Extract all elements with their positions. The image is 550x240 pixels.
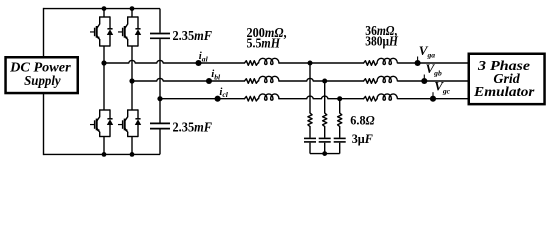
wire shunt branch b upper — [324, 81, 326, 113]
node phase a at leg A midpoint — [101, 60, 106, 65]
wire phase c middle segment — [279, 96, 364, 99]
svg-text:Supply: Supply — [24, 74, 61, 89]
svg-text:3μF: 3μF — [352, 132, 373, 146]
inductor Lag 380uH — [377, 58, 397, 64]
wire shunt branch b lower — [324, 143, 326, 154]
resistor Rbl 200mOhm — [245, 79, 259, 84]
wire inverter leg B vertical — [131, 9, 133, 155]
wire left DC bus — [43, 8, 45, 155]
wire phase a to grid emulator — [398, 62, 469, 64]
svg-text:2.35mF: 2.35mF — [173, 28, 213, 43]
wire shunt branch a to capacitor — [309, 127, 311, 138]
node current measurement i_cl — [215, 96, 221, 102]
three-phase grid emulator box — [469, 54, 545, 104]
diode D4 (anti-parallel) — [135, 110, 141, 137]
resistor Rda 6.8Ohm (damping) — [308, 113, 312, 127]
diode D3 (anti-parallel) — [107, 110, 113, 137]
inductor Lbl 5.5mH — [259, 76, 279, 82]
transistor Q3 (IGBT) — [90, 110, 100, 137]
node phase b at leg B midpoint — [129, 78, 134, 83]
svg-text:6.8Ω: 6.8Ω — [350, 114, 374, 128]
node current measurement i_bl — [206, 78, 212, 84]
node grid voltage V_gc — [430, 92, 436, 102]
wire collector/emitter connectors — [100, 17, 110, 46]
diode D2 (anti-parallel) — [135, 17, 141, 46]
svg-text:Emulator: Emulator — [473, 85, 535, 100]
wire phase c line (midpoint to filter) — [160, 98, 245, 100]
svg-text:380μH: 380μH — [365, 33, 398, 48]
svg-text:5.5mH: 5.5mH — [247, 36, 281, 51]
inductor Lal 5.5mH — [259, 58, 279, 64]
diode D1 (anti-parallel) — [107, 17, 113, 46]
capacitor C2 2.35mF (lower DC-link) — [150, 123, 170, 128]
node bottom rail / leg A — [102, 152, 107, 157]
wire phase b to grid emulator — [398, 80, 469, 82]
node shunt tap phase b — [322, 79, 327, 84]
capacitor Cfc 3uF (filter) — [334, 138, 346, 142]
inductor Lcl 5.5mH — [259, 94, 279, 100]
wire DC-link capacitor branch — [159, 9, 161, 155]
inductor Lbg 380uH — [377, 76, 397, 82]
node top rail / leg A — [102, 6, 107, 11]
svg-text:2.35mF: 2.35mF — [173, 120, 213, 135]
transistor Q1 (IGBT) — [90, 17, 100, 46]
inductor Lcg 380uH — [377, 94, 397, 100]
wire shunt star-point tie — [310, 153, 340, 155]
resistor Rcl 200mOhm — [245, 96, 259, 101]
wire inverter leg A vertical — [103, 9, 105, 155]
node phase c at capacitor midpoint — [157, 96, 162, 101]
wire shunt branch c to capacitor — [339, 127, 341, 138]
wire phase b middle segment — [279, 78, 364, 81]
wire collector/emitter connectors — [128, 17, 138, 46]
resistor Ral 200mOhm — [245, 61, 259, 66]
wire collector/emitter connectors — [128, 110, 138, 137]
wire shunt branch b to capacitor — [324, 127, 326, 138]
node shunt tap phase c — [337, 96, 342, 101]
resistor Rdb 6.8Ohm (damping) — [323, 113, 327, 127]
node grid voltage V_gb — [421, 75, 427, 85]
capacitor C1 2.35mF (upper DC-link) — [150, 34, 170, 39]
wire shunt branch c lower — [339, 143, 341, 154]
resistor Rag 36mOhm — [364, 61, 378, 66]
capacitor Cfa 3uF (filter) — [304, 138, 316, 142]
node top rail / leg B — [130, 6, 135, 11]
wire shunt branch a upper — [309, 63, 311, 113]
wire phase c to grid emulator — [398, 98, 469, 100]
capacitor Cfb 3uF (filter) — [319, 138, 331, 142]
resistor Rdc 6.8Ohm (damping) — [338, 113, 342, 127]
node current measurement i_al — [195, 60, 201, 66]
wire bottom DC rail — [44, 153, 161, 155]
wire phase a line (inverter to filter) — [104, 60, 245, 63]
node bottom rail / leg B — [130, 152, 135, 157]
wire shunt branch a lower — [309, 143, 311, 154]
wire shunt branch c upper — [339, 99, 341, 113]
wire top DC rail — [44, 8, 161, 10]
resistor Rbg 36mOhm — [364, 79, 378, 84]
node shunt star point — [322, 151, 327, 156]
resistor Rcg 36mOhm — [364, 96, 378, 101]
wire phase a middle segment — [279, 62, 364, 64]
node grid voltage V_ga — [415, 57, 421, 67]
wire collector/emitter connectors — [100, 110, 110, 137]
transistor Q2 (IGBT) — [118, 17, 128, 46]
node shunt tap phase a — [308, 61, 313, 66]
DC power supply box — [6, 57, 78, 93]
wire phase b line (inverter to filter) — [132, 78, 245, 81]
transistor Q4 (IGBT) — [118, 110, 128, 137]
